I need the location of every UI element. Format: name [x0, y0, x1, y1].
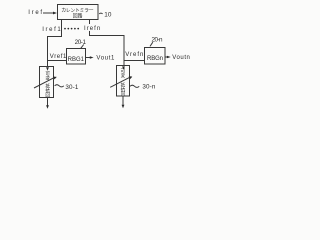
wire Irefn branch lower: [90, 31, 125, 66]
resistor block RBGn: [145, 48, 166, 65]
variable element box 30-n: [117, 66, 130, 97]
svg-text:10: 10: [104, 12, 112, 19]
wire Vrefn branch to RBGn: [124, 60, 145, 62]
wire output below 30-1: [47, 98, 49, 107]
variable arrow diagonal 30-1: [34, 77, 55, 88]
svg-text:変: 変: [121, 72, 126, 79]
svg-text:30-n: 30-n: [142, 83, 155, 90]
svg-text:Vout1: Vout1: [96, 56, 115, 62]
arrowhead Iref into box: [53, 12, 57, 15]
arrowhead into 30-1: [46, 67, 49, 71]
arrowhead into 30-n: [122, 66, 125, 70]
variable arrow diagonal 30-n: [110, 77, 131, 88]
svg-text:Vrefn: Vrefn: [125, 52, 143, 58]
wire Iref1 branch: [48, 20, 62, 67]
arrowhead variable diagonal 30-n: [129, 76, 133, 79]
leader tilde 10: [99, 12, 102, 15]
arrowhead Voutn: [167, 56, 171, 59]
svg-text:Voutn: Voutn: [172, 55, 190, 61]
variable element box 30-1: [40, 67, 54, 98]
svg-text:Vref1: Vref1: [50, 54, 67, 60]
svg-text:20-1: 20-1: [75, 39, 87, 46]
wire Iref input: [43, 12, 55, 14]
arrowhead below 30-n: [122, 105, 125, 109]
arrowhead variable diagonal 30-1: [53, 77, 57, 80]
svg-text:回路: 回路: [73, 13, 83, 20]
svg-text:Irefn: Irefn: [84, 26, 100, 32]
svg-text:30-1: 30-1: [65, 84, 78, 91]
resistor block RBG1: [67, 49, 86, 65]
svg-text:20-n: 20-n: [152, 37, 163, 44]
wire Irefn branch upper: [89, 20, 91, 25]
svg-text:Iref1: Iref1: [42, 27, 61, 33]
leader tilde 30-1: [55, 85, 64, 87]
wire Vout1 arrow line: [86, 57, 92, 59]
svg-text:変: 変: [45, 75, 50, 82]
leader line 20-n: [150, 42, 153, 46]
current mirror box U10: [58, 5, 99, 20]
leader line 20-1: [81, 45, 84, 49]
arrowhead Vout1: [90, 56, 94, 59]
dots between branches: [64, 28, 66, 30]
leader tilde 30-n: [130, 85, 139, 87]
wire Voutn arrow line: [165, 56, 168, 58]
arrowhead below 30-1: [46, 105, 49, 109]
svg-text:カレントミラー: カレントミラー: [61, 8, 93, 14]
wire Vref1 branch to RBG1: [48, 60, 67, 62]
wire output below 30-n: [122, 96, 124, 106]
svg-text:RBG1: RBG1: [68, 57, 85, 63]
svg-text:RBGn: RBGn: [147, 56, 163, 62]
label Irefn with bg: [84, 24, 101, 31]
